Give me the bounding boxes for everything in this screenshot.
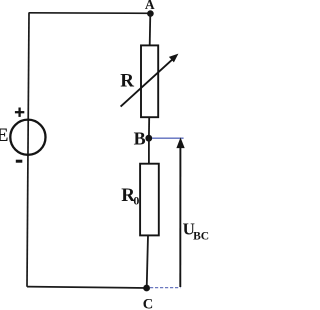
plus mark of source E [15,108,24,117]
voltage source E (circle) [10,120,45,155]
label B [134,128,146,148]
label UBC [183,220,209,243]
label E [0,125,8,146]
wire resistor R0 to node C [147,235,148,288]
wire node B to resistor R0 [148,138,150,164]
svg-text:E: E [0,125,8,146]
wire resistor R to node B [148,117,150,138]
node C (junction dot) [143,285,150,292]
label C [143,296,153,310]
svg-text:0: 0 [133,194,139,208]
leader line from node C to UBC arrow [150,287,181,289]
leader line from node B to UBC arrow [152,137,184,139]
label R [120,71,134,92]
resistor R0 (body) [140,164,159,236]
voltage arrow UBC (head) [176,137,184,148]
node A (junction dot) [147,10,154,17]
svg-text:B: B [134,128,146,148]
wire node A to resistor R [149,14,152,46]
svg-text:R: R [120,71,134,92]
wire bottom rail (left rail to node C) [27,287,147,288]
resistor R (body) [141,45,158,117]
node B (junction dot) [145,135,152,142]
minus mark of source E [16,160,22,163]
svg-text:BC: BC [193,230,209,242]
svg-text:C: C [143,296,153,310]
variable-resistor arrow of R [121,54,179,107]
svg-text:A: A [145,0,155,12]
label A [145,0,155,12]
label R0 [121,185,139,208]
wire top rail (node A to left rail) [29,12,151,15]
voltage arrow UBC (line) [179,147,181,287]
wire left rail [27,13,29,287]
